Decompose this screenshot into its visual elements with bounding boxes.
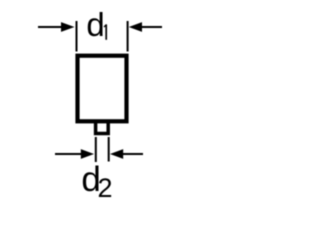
dimension d2 right extension tick: [108, 137, 110, 162]
dimension d2 left extension tick: [95, 137, 97, 162]
svg-text:d: d: [86, 6, 104, 43]
dimension d1 left leader line: [38, 26, 63, 28]
dimension d1 right leader line: [140, 26, 162, 28]
dimension d1 left extension tick: [76, 21, 78, 52]
dimension d2 right arrowhead: [110, 149, 123, 159]
svg-text:2: 2: [98, 173, 113, 200]
dimension d2 left leader line: [55, 153, 82, 155]
dimension d1 left arrowhead: [61, 22, 75, 32]
dimension d1 right extension tick: [127, 21, 129, 52]
dimension d1 right arrowhead: [129, 22, 142, 32]
fitting body outline: [78, 56, 127, 122]
spigot outlet: [96, 121, 109, 134]
dimension d2 right leader line: [122, 153, 143, 155]
dimension d2 left arrowhead: [81, 149, 94, 159]
